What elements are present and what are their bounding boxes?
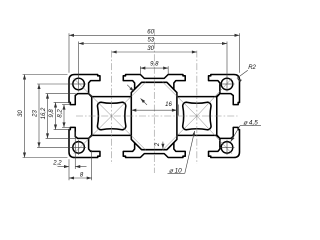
dimension 23 left — [38, 84, 40, 147]
dimension 16,2 left — [47, 94, 49, 139]
extension line x=75.25 bottom — [74, 132, 76, 170]
dimension 9,8 top — [140, 67, 168, 69]
extension line x=69 bottom — [68, 159, 70, 180]
dimension 30 top — [112, 51, 197, 53]
centerline vertical right channel — [196, 51, 198, 165]
svg-text:⌀ 10: ⌀ 10 — [169, 167, 182, 174]
extension lines for dim 60 — [68, 33, 70, 73]
leader ∅4,5 corner hole — [240, 125, 261, 127]
diagonal centerline right channel upper-left — [162, 81, 197, 116]
extension lines for dim 23 left — [37, 83, 72, 85]
svg-text:16,2: 16,2 — [41, 107, 47, 119]
corner hole ∅4.5 #2 — [221, 78, 233, 90]
dimension 16 central cavity width — [131, 109, 177, 111]
dimension 8 bottom — [69, 177, 92, 179]
dimension 2 bottom web — [162, 142, 164, 149]
diagonal centerline left channel lower-right — [112, 116, 147, 151]
center cross of corner hole #1 — [71, 83, 86, 85]
extension lines for dim 9.8 top — [139, 66, 141, 74]
svg-text:⌀ 4,5: ⌀ 4,5 — [243, 120, 258, 127]
diagonal centerline left channel to bottom-left hole — [74, 116, 112, 154]
central cavity — [131, 82, 177, 149]
extension lines for dim 8.2 left — [62, 104, 70, 106]
svg-text:30: 30 — [147, 46, 154, 52]
svg-text:2: 2 — [155, 142, 161, 147]
dimension 9,8 left — [55, 102, 57, 129]
channel core hole left ∅10 — [97, 102, 125, 130]
diagonal centerline left channel to top-left hole — [74, 78, 112, 116]
centerline vertical left channel — [111, 51, 113, 165]
dimension 53 top — [79, 43, 227, 45]
diagonal centerline left channel upper-right — [112, 81, 147, 116]
svg-text:16: 16 — [165, 102, 172, 108]
svg-text:9,8: 9,8 — [49, 109, 55, 118]
svg-text:60: 60 — [147, 29, 154, 35]
corner hole ∅4.5 #1 — [73, 78, 85, 90]
svg-text:8,2: 8,2 — [57, 109, 63, 118]
center cross of corner hole #2 — [220, 83, 235, 85]
centerline vertical profile middle — [153, 29, 155, 173]
extension line x=91.7 bottom — [91, 150, 93, 180]
dimension 8,2 left — [63, 105, 65, 128]
svg-text:30: 30 — [18, 110, 24, 117]
profile outer contour — [69, 75, 240, 158]
svg-text:23: 23 — [32, 110, 38, 118]
dimension 2,2 bottom (outside arrows) — [58, 166, 70, 168]
channel core hole right ∅10 — [183, 102, 211, 130]
leader R2 corner radius — [237, 70, 248, 78]
dimension 60 top — [69, 34, 240, 36]
diagonal centerline right channel to bottom-right hole — [197, 116, 232, 154]
svg-text:2,2: 2,2 — [52, 161, 62, 167]
svg-text:53: 53 — [147, 38, 154, 44]
center cross of corner hole #4 — [220, 146, 235, 148]
diagonal centerline right channel to top-right hole — [197, 78, 232, 116]
extension line near cavity right wall — [178, 105, 180, 116]
corner hole ∅4.5 #4 — [221, 142, 233, 154]
chamfer wall thickness arrows — [127, 85, 134, 92]
svg-text:9,8: 9,8 — [150, 62, 159, 68]
diagonal centerline right channel lower-left — [162, 116, 197, 151]
dimension 30 left — [24, 75, 26, 158]
centerline horizontal profile middle — [76, 115, 238, 117]
leader ∅10 channel — [168, 172, 185, 174]
extension lines for dim 53 — [78, 42, 80, 78]
extension lines for dim 30 left — [23, 74, 68, 76]
corner hole ∅4.5 #3 — [73, 142, 85, 154]
center cross of corner hole #3 — [71, 146, 86, 148]
extension lines for dim 16.2 left — [46, 93, 76, 95]
svg-text:R2: R2 — [248, 65, 256, 71]
extension lines for dim 9.8 left — [54, 101, 71, 103]
